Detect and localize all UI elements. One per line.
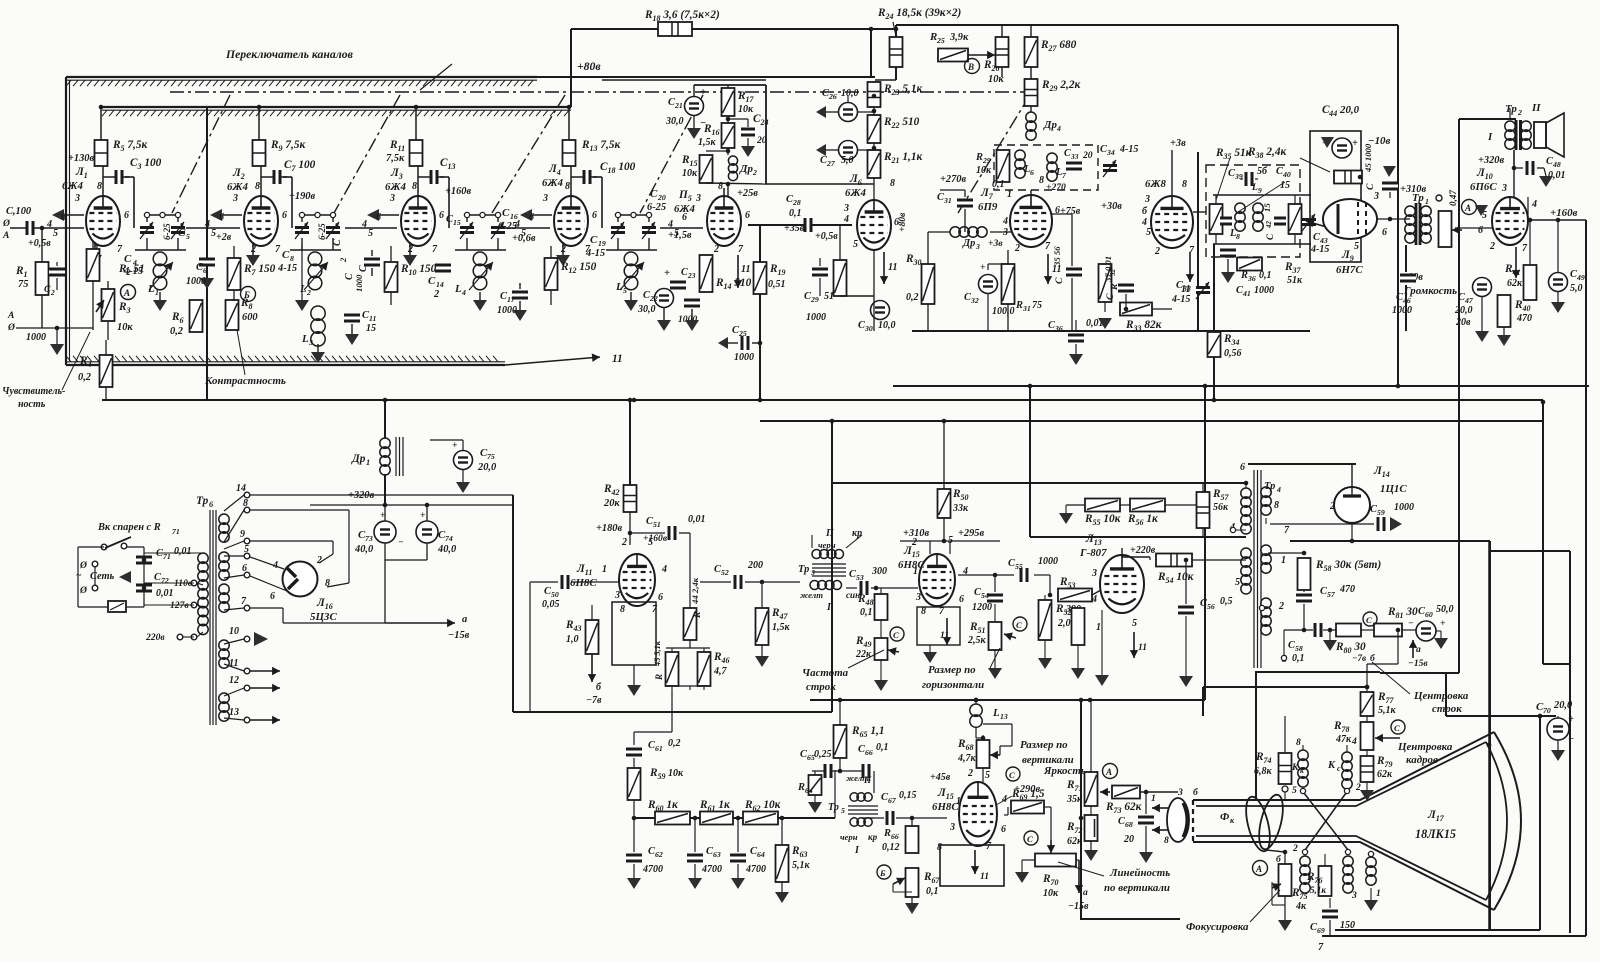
svg-text:С: С [502,207,510,219]
svg-text:2: 2 [1489,241,1495,252]
svg-text:2: 2 [1154,246,1160,257]
svg-text:8: 8 [1164,835,1169,846]
svg-text:47к: 47к [1335,734,1352,745]
svg-text:+: + [420,510,426,521]
svg-text:48: 48 [1552,160,1561,169]
svg-text:Размер по: Размер по [928,664,976,676]
svg-text:1000: 1000 [497,305,517,316]
svg-text:1: 1 [1376,888,1381,899]
svg-text:А: А [123,288,130,298]
svg-text:72: 72 [161,576,169,585]
svg-text:1000: 1000 [186,276,206,287]
svg-text:5: 5 [1354,241,1359,252]
svg-text:6: 6 [219,212,224,223]
svg-text:L: L [301,333,309,345]
svg-text:Сеть: Сеть [90,571,115,582]
svg-text:5,0: 5,0 [1570,283,1583,294]
svg-text:Ф: Ф [1220,811,1229,823]
svg-text:35к: 35к [1066,794,1083,805]
svg-text:2: 2 [1517,108,1522,117]
svg-text:75: 75 [1032,300,1042,311]
svg-text:31: 31 [1022,304,1031,313]
svg-text:А: А [7,310,14,321]
svg-text:40,0: 40,0 [354,544,374,555]
svg-text:Контрастность: Контрастность [204,375,286,387]
svg-text:20,0: 20,0 [1454,305,1473,316]
svg-text:20: 20 [1082,150,1093,161]
svg-text:4к: 4к [1295,901,1307,912]
svg-text:2: 2 [752,168,757,177]
svg-text:С: С [1009,770,1015,780]
svg-text:R: R [797,782,805,793]
svg-text:R29 2,2к: R29 2,2к [1041,79,1080,93]
svg-text:220в: 220в [145,632,165,643]
svg-text:0,1: 0,1 [876,742,889,753]
svg-text:30: 30 [864,324,873,333]
svg-text:28: 28 [792,198,801,207]
svg-text:62: 62 [655,850,663,859]
svg-text:5: 5 [853,239,858,250]
svg-text:6Ж4: 6Ж4 [542,177,563,189]
svg-text:Яркость: Яркость [1043,765,1086,777]
svg-text:R22 510: R22 510 [883,116,920,130]
svg-text:С: С [1105,293,1116,300]
svg-text:Ø: Ø [79,585,88,596]
svg-text:К: К [1327,760,1336,771]
svg-text:строк: строк [806,681,836,693]
svg-text:3,9к: 3,9к [949,32,969,43]
svg-text:0,15: 0,15 [899,790,917,801]
svg-text:С3 100: С3 100 [130,157,162,171]
svg-text:3: 3 [843,203,849,214]
svg-text:+35в: +35в [784,223,805,234]
svg-text:0,5: 0,5 [1220,596,1233,607]
svg-text:6: 6 [376,212,381,223]
svg-text:строк: строк [1432,703,1462,715]
svg-text:4-15: 4-15 [1310,244,1329,255]
svg-text:6: 6 [745,210,750,221]
svg-text:6: 6 [282,210,287,221]
svg-text:34: 34 [1106,148,1115,157]
svg-text:+295в: +295в [958,528,985,539]
svg-text:3: 3 [1091,568,1097,579]
svg-text:0,01: 0,01 [174,546,192,557]
svg-text:14: 14 [436,280,444,289]
svg-text:1000: 1000 [1038,556,1058,567]
svg-text:69: 69 [1317,926,1325,935]
svg-text:0,1: 0,1 [926,886,939,897]
svg-text:II: II [1531,102,1541,114]
svg-text:1000: 1000 [806,312,826,323]
svg-text:44 2,4к: 44 2,4к [690,577,700,605]
svg-text:39: 39 [1234,172,1243,181]
svg-text:3: 3 [614,590,620,601]
svg-text:1: 1 [1007,189,1012,200]
svg-text:5: 5 [1235,577,1240,588]
svg-text:0,2: 0,2 [906,292,919,303]
svg-text:А: А [2,230,9,241]
svg-text:6Ж4: 6Ж4 [674,203,695,215]
svg-text:2: 2 [967,768,973,779]
svg-text:30,0: 30,0 [637,304,656,315]
svg-text:11: 11 [940,630,949,641]
svg-text:44: 44 [1328,109,1337,118]
svg-text:6Ж4: 6Ж4 [227,181,248,193]
svg-text:+1,5в: +1,5в [668,230,692,241]
svg-text:2: 2 [1292,843,1298,854]
svg-text:1: 1 [913,566,918,577]
svg-text:45 1000: 45 1000 [1363,143,1373,173]
svg-text:2: 2 [713,244,719,255]
svg-text:7: 7 [1318,942,1324,953]
svg-text:55: 55 [1015,562,1023,571]
svg-text:2: 2 [338,257,348,263]
svg-text:23: 23 [687,271,696,280]
svg-text:5: 5 [244,544,249,555]
svg-text:горизонтали: горизонтали [922,679,984,691]
svg-text:30,0: 30,0 [665,116,684,127]
svg-text:R69 1,5: R69 1,5 [1011,788,1045,802]
svg-text:10к: 10к [738,104,754,115]
svg-text:5б: 5б [1257,166,1268,177]
svg-text:25: 25 [738,329,747,338]
svg-text:L: L [299,283,307,295]
svg-text:R: R [654,674,664,681]
svg-text:Др: Др [962,238,975,249]
svg-text:45 5,1к: 45 5,1к [653,640,662,667]
svg-text:51: 51 [653,520,661,529]
svg-text:Громкость: Громкость [1403,285,1457,297]
svg-text:20: 20 [657,193,666,202]
svg-text:С18 100: С18 100 [600,161,636,175]
svg-text:R27 680: R27 680 [1040,39,1077,53]
svg-text:5: 5 [1132,618,1137,629]
svg-text:I: I [1487,131,1493,143]
svg-text:1000: 1000 [1394,502,1414,513]
svg-text:4-15: 4-15 [1119,144,1138,155]
svg-text:3: 3 [232,193,238,204]
svg-text:С: С [650,188,658,200]
svg-text:Вк спарен с R: Вк спарен с R [97,522,161,533]
svg-text:−: − [398,537,404,548]
svg-text:+0,5в: +0,5в [28,238,51,249]
svg-text:Др: Др [1043,119,1057,131]
svg-text:4700: 4700 [745,864,766,875]
svg-text:R62 10к: R62 10к [744,799,781,813]
svg-text:с: с [1337,764,1341,773]
svg-text:9: 9 [1258,186,1262,195]
svg-text:0,01: 0,01 [156,588,174,599]
svg-text:9: 9 [240,529,245,540]
svg-text:70: 70 [1543,706,1551,715]
svg-text:С: С [44,284,51,295]
svg-text:58: 58 [1295,644,1303,653]
svg-text:0,47: 0,47 [1448,190,1458,206]
svg-text:Переключатель каналов: Переключатель каналов [225,48,354,61]
svg-text:А: А [1105,767,1112,777]
svg-text:+160в: +160в [1550,207,1578,219]
svg-text:−15в: −15в [1068,901,1089,912]
svg-text:Тр: Тр [196,495,209,507]
svg-text:1000: 1000 [1254,285,1274,296]
svg-text:0,1: 0,1 [992,179,1005,190]
svg-text:4: 4 [1091,594,1097,605]
svg-text:С: С [1265,233,1275,240]
svg-text:+45в: +45в [930,772,951,783]
svg-text:2: 2 [1355,782,1361,793]
svg-text:Чувствитель-: Чувствитель- [2,386,65,397]
svg-text:4: 4 [1002,216,1008,227]
svg-text:3: 3 [542,193,548,204]
svg-text:6Ж8: 6Ж8 [1145,178,1166,190]
svg-text:5: 5 [674,228,679,239]
svg-text:47: 47 [1464,296,1474,305]
svg-text:+: + [700,87,706,98]
svg-text:6Н7С: 6Н7С [1336,264,1363,276]
svg-text:74: 74 [445,534,453,543]
svg-text:0,05: 0,05 [542,599,560,610]
svg-text:+: + [1440,618,1446,629]
svg-text:6: 6 [1240,462,1245,473]
svg-text:С: С [332,239,343,246]
svg-text:+270: +270 [1046,182,1066,193]
svg-text:6: 6 [1001,824,1006,835]
svg-text:1: 1 [1151,793,1156,804]
svg-text:6: 6 [270,591,275,602]
svg-text:Тр: Тр [1412,192,1424,204]
svg-text:3: 3 [695,193,701,204]
svg-text:10к: 10к [668,768,684,779]
svg-text:1: 1 [1425,197,1429,206]
svg-text:2,0: 2,0 [1057,618,1071,629]
svg-text:38: 38 [1182,284,1191,293]
svg-text:R65 1,1: R65 1,1 [851,725,885,739]
svg-text:11: 11 [980,871,989,882]
svg-text:Центровка: Центровка [1397,741,1453,753]
svg-text:+: + [1568,714,1574,725]
svg-text:5: 5 [648,537,653,548]
svg-text:6Ж4: 6Ж4 [385,181,406,193]
svg-text:Тр: Тр [828,802,839,813]
svg-text:6П9: 6П9 [978,201,998,213]
svg-text:17: 17 [507,295,516,304]
svg-text:1200: 1200 [972,602,992,613]
svg-text:51: 51 [824,291,834,302]
svg-text:2: 2 [306,288,311,297]
svg-text:8: 8 [1182,179,1187,190]
svg-text:18ЛК15: 18ЛК15 [1415,827,1456,841]
svg-text:R13 7,5к: R13 7,5к [581,139,620,153]
svg-text:13: 13 [229,707,239,718]
svg-text:66: 66 [891,832,899,841]
svg-text:С: С [1054,277,1065,284]
svg-text:3: 3 [1351,890,1357,901]
svg-text:11: 11 [1138,642,1147,653]
svg-text:а: а [1083,887,1088,898]
svg-text:6: 6 [658,592,663,603]
svg-text:61: 61 [655,744,663,753]
svg-text:33к: 33к [952,503,969,514]
svg-text:75: 75 [18,279,28,290]
svg-text:+0,5в: +0,5в [815,231,838,242]
svg-text:4-15: 4-15 [1171,294,1190,305]
svg-text:4: 4 [1531,199,1537,210]
svg-text:+190в: +190в [289,191,316,202]
svg-text:5: 5 [1146,227,1151,238]
svg-text:+30в: +30в [1101,201,1122,212]
svg-text:+75в: +75в [1060,206,1081,217]
svg-text:кадров: кадров [1406,754,1438,766]
svg-text:4: 4 [1056,124,1061,133]
svg-text:15: 15 [366,323,376,334]
svg-text:L: L [454,283,462,295]
svg-text:6: 6 [529,212,534,223]
svg-text:R12 150: R12 150 [560,261,597,275]
svg-text:62к: 62к [1377,769,1393,780]
svg-text:60: 60 [1425,610,1433,619]
svg-text:7,5к: 7,5к [386,153,405,164]
svg-text:−: − [1408,618,1414,629]
svg-text:С: С [282,249,290,261]
svg-text:14: 14 [236,483,246,494]
svg-text:6: 6 [61,212,66,223]
svg-text:300: 300 [871,566,887,577]
svg-text:3: 3 [1144,194,1150,205]
svg-text:3: 3 [1373,191,1379,202]
svg-text:200: 200 [747,560,763,571]
svg-text:15: 15 [453,218,461,227]
svg-text:R: R [1015,300,1023,311]
svg-text:R: R [975,152,983,163]
svg-text:20в: 20в [1455,317,1471,328]
svg-text:36: 36 [1247,274,1256,283]
svg-text:С: С [178,227,186,239]
svg-text:41: 41 [1242,289,1251,298]
svg-text:3: 3 [74,193,80,204]
svg-text:8: 8 [565,181,570,192]
svg-text:2: 2 [560,244,566,255]
svg-text:А: А [1255,864,1262,874]
svg-text:1: 1 [366,458,370,467]
svg-text:6Ж4: 6Ж4 [845,187,866,199]
svg-text:8: 8 [1296,737,1301,748]
svg-text:L: L [1251,182,1258,193]
svg-text:2: 2 [911,537,917,548]
svg-text:22к: 22к [855,649,872,660]
svg-text:черн: черн [840,832,858,842]
svg-text:1,5к: 1,5к [772,622,791,633]
svg-text:0,12: 0,12 [882,842,900,853]
svg-text:2: 2 [621,537,627,548]
svg-text:+160в: +160в [643,533,668,544]
svg-text:2: 2 [433,289,439,300]
svg-text:6-25: 6-25 [162,223,172,240]
svg-text:~: ~ [76,570,82,581]
svg-text:R9 7,5к: R9 7,5к [270,139,305,153]
svg-text:0,01: 0,01 [688,514,706,525]
svg-text:0,1: 0,1 [789,208,802,219]
svg-text:63: 63 [713,850,721,859]
svg-text:3: 3 [1501,183,1507,194]
svg-text:22: 22 [649,294,658,303]
svg-text:В: В [967,62,974,72]
svg-text:8: 8 [1274,500,1279,511]
svg-text:8: 8 [620,604,625,615]
svg-text:20,0: 20,0 [477,462,497,473]
svg-text:4: 4 [461,288,466,297]
svg-text:4700: 4700 [701,864,722,875]
svg-text:6,8к: 6,8к [1254,766,1273,777]
svg-text:10,0: 10,0 [841,88,859,99]
svg-text:13: 13 [1000,712,1008,721]
svg-text:1: 1 [956,796,961,807]
svg-text:5,0: 5,0 [841,155,854,166]
svg-text:5: 5 [623,286,627,295]
svg-text:1,5к: 1,5к [698,137,717,148]
svg-text:71: 71 [172,527,180,536]
svg-text:С: С [1064,148,1071,159]
svg-text:15: 15 [1280,180,1290,191]
svg-text:2: 2 [1329,501,1335,512]
svg-text:15: 15 [1262,203,1272,212]
svg-text:6-25: 6-25 [647,202,666,213]
svg-text:4700: 4700 [642,864,663,875]
svg-text:черн: черн [818,540,836,550]
svg-text:R7 150: R7 150 [243,263,276,277]
svg-text:0,2: 0,2 [668,738,681,749]
svg-text:Линейность: Линейность [1109,867,1170,879]
svg-text:R21 1,1к: R21 1,1к [883,151,922,165]
svg-text:R33 82к: R33 82к [1125,319,1162,333]
svg-text:11: 11 [612,353,623,365]
svg-text:Тр: Тр [1505,103,1517,115]
svg-text:Др: Др [351,453,366,465]
svg-text:20: 20 [756,135,767,146]
svg-text:4: 4 [1001,794,1007,805]
svg-text:10к: 10к [682,168,698,179]
svg-text:−15в: −15в [1408,658,1428,669]
svg-text:51к: 51к [1287,275,1303,286]
svg-text:64: 64 [805,786,813,795]
svg-text:73: 73 [365,534,373,543]
svg-text:62к: 62к [1507,278,1523,289]
svg-text:+80в: +80в [897,212,908,232]
svg-text:29: 29 [982,156,991,165]
svg-text:5,1к: 5,1к [1378,705,1397,716]
svg-text:10: 10 [229,626,239,637]
svg-text:к: к [1300,766,1304,775]
svg-text:1000: 1000 [734,352,754,363]
svg-text:+: + [1352,138,1358,149]
svg-text:П: П [825,528,835,539]
svg-text:С: С [681,267,688,278]
svg-text:С: С [590,234,598,246]
svg-text:С: С [893,630,899,640]
svg-text:6Ж4: 6Ж4 [62,180,83,192]
svg-text:Фокусировка: Фокусировка [1186,921,1249,933]
svg-text:R55 10к: R55 10к [1084,513,1121,527]
svg-text:50,0: 50,0 [1436,604,1454,615]
svg-text:+220в: +220в [1130,545,1156,556]
svg-text:40,0: 40,0 [437,544,457,555]
svg-text:Центровка: Центровка [1413,690,1469,702]
svg-text:67: 67 [888,796,897,805]
svg-text:57: 57 [1327,590,1336,599]
svg-text:R: R [1240,270,1248,281]
svg-text:L: L [615,281,623,293]
svg-text:5: 5 [521,228,526,239]
svg-text:С7 100: С7 100 [284,159,316,173]
